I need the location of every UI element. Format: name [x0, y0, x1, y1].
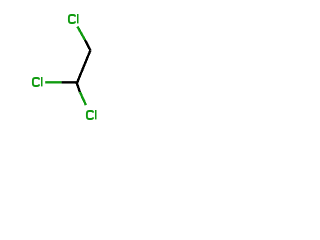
bond C2 to top Cl (green half near Cl)	[77, 27, 85, 41]
bond C2 to top Cl (black half near C2)	[85, 40, 90, 50]
molecule: 1,1,2-trichloroethane skeletal structure	[0, 0, 130, 130]
top Cl label: letter C	[69, 15, 75, 23]
bond C1 to left Cl (black half near C1)	[62, 81, 78, 83]
bottom Cl label: letter l	[95, 110, 97, 119]
bottom Cl label: letter C	[87, 111, 93, 119]
left Cl label: letter l	[41, 77, 43, 86]
bond C1 to left Cl (green half near Cl)	[45, 81, 61, 83]
bond C1 to bottom Cl (green half near Cl)	[80, 92, 86, 105]
bond C1-C2	[77, 50, 90, 82]
top Cl label: letter l	[77, 14, 79, 23]
bond C1 to bottom Cl (black half near C1)	[77, 83, 80, 92]
background	[0, 0, 130, 130]
left Cl label: letter C	[33, 78, 39, 86]
